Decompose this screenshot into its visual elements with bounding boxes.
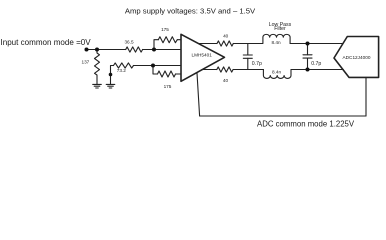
svg-text:Amp supply voltages: 3.5V and: Amp supply voltages: 3.5V and – 1.5V [125, 6, 256, 15]
node A (top input/feedback) [152, 48, 156, 52]
resistor 175 (top feedback) [158, 37, 177, 43]
svg-text:40: 40 [223, 78, 229, 83]
ADC12J4000 chevron [334, 37, 379, 78]
capacitor 0.7p (first, differential) [243, 44, 252, 70]
svg-text:0.7p: 0.7p [311, 61, 321, 67]
op-amp U1 LMH5401 [181, 34, 225, 81]
wire node A up to top feedback [154, 40, 158, 50]
capacitor 0.7p (second, differential) [303, 44, 312, 70]
resistor 73.2 branch: left lead down to ground [111, 66, 114, 85]
wire R40 bottom to filter [233, 69, 263, 71]
svg-text:73.2: 73.2 [117, 68, 127, 73]
resistor 175 (bottom feedback) [158, 71, 176, 77]
svg-text:Input common mode =0V: Input common mode =0V [1, 38, 92, 47]
wire op-amp out- to R40 bottom [202, 69, 217, 71]
node B (bottom input/feedback) [151, 64, 155, 68]
ground under 73.2 lead [106, 84, 115, 88]
node input dot [85, 48, 89, 52]
wire inductor top to node C [290, 43, 342, 45]
svg-text:ADC12J4000: ADC12J4000 [343, 55, 371, 60]
wire bottom feedback to op-amp [176, 73, 182, 75]
svg-text:LMH5401: LMH5401 [192, 52, 213, 57]
wire R40 top to filter [233, 43, 262, 45]
svg-text:175: 175 [164, 84, 172, 89]
wire input to R 36.5 [87, 49, 126, 51]
junction dots [85, 42, 310, 77]
svg-text:ADC common mode 1.225V: ADC common mode 1.225V [257, 119, 355, 128]
svg-text:137: 137 [81, 60, 89, 65]
node R137 junction [95, 48, 99, 52]
svg-text:0.7p: 0.7p [252, 61, 262, 67]
svg-text:8.4n: 8.4n [272, 70, 282, 75]
node C (top after filter) [306, 42, 310, 46]
resistor 40 (bottom) [217, 67, 233, 72]
wire R36.5 to op-amp input + [143, 49, 181, 51]
wire node B down to bottom feedback [153, 66, 158, 75]
resistor 36.5 [126, 47, 143, 52]
inductor 8.4n (bottom) [263, 70, 291, 79]
svg-text:Filter: Filter [274, 26, 286, 32]
wire op-amp out+ to R40 top [198, 43, 217, 45]
svg-text:8.4n: 8.4n [271, 40, 281, 45]
inductor 8.4n (top) [263, 34, 290, 43]
wire ADC bottom to common mode line [365, 77, 367, 116]
ground under 137 [93, 84, 102, 88]
svg-text:40: 40 [223, 34, 229, 39]
svg-text:175: 175 [161, 27, 169, 32]
resistor 40 (top) [217, 41, 233, 46]
svg-text:36.5: 36.5 [124, 40, 134, 45]
node D (bottom after filter) [306, 68, 310, 72]
node on 73.2 ground lead [109, 73, 113, 77]
wire ADC common mode: op-amp CM pin down [197, 73, 200, 116]
resistor 137 (vertical to ground) [95, 50, 100, 85]
resistor 73.2 [114, 63, 134, 68]
wire top feedback to op-amp [177, 39, 181, 41]
wire R73.2 to op-amp input - [134, 65, 182, 67]
wire inductor bottom to node D [291, 69, 343, 71]
wire ADC common mode horizontal [200, 115, 366, 117]
